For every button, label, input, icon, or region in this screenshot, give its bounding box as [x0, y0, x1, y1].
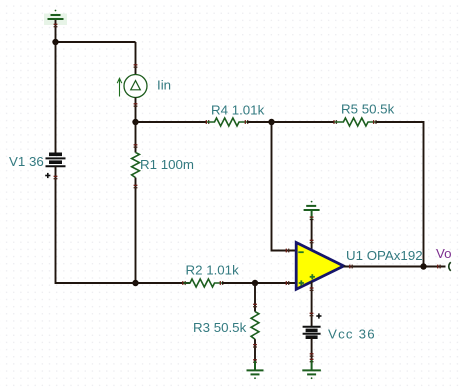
pin x GND3: [310, 217, 314, 219]
node A junction: [52, 39, 58, 45]
pin x GND4: [310, 359, 314, 361]
node F junction: [252, 280, 258, 286]
pin x R1 top: [134, 145, 138, 147]
pin x current source top: [134, 65, 138, 67]
wire node B to R4: [136, 121, 208, 123]
ground GND1 glow: [44, 14, 67, 26]
pin x GND2: [253, 360, 257, 362]
resistor R5 zigzag: [335, 118, 376, 126]
svg-text:Iin: Iin: [157, 78, 171, 93]
ground GND1: [48, 10, 64, 19]
wire op-amp bottom pin to Vcc: [311, 282, 313, 327]
resistor R3 zigzag: [251, 312, 259, 340]
pin x GND1: [54, 24, 58, 26]
pin x R4 right: [245, 120, 247, 124]
svg-text:R1 100m: R1 100m: [140, 157, 194, 172]
wire feedback node D down and right to op-amp minus input: [272, 122, 297, 251]
pin x R5 left: [334, 120, 336, 124]
ground GND2: [247, 361, 264, 379]
svg-text:U1 OPAx192: U1 OPAx192: [346, 248, 423, 263]
pin x Vo terminal: [438, 265, 440, 269]
wire V1 bottom down and right to R2: [56, 166, 191, 283]
svg-text:Vo: Vo: [436, 246, 452, 261]
wire ground GND1 stem to node A: [55, 20, 57, 42]
battery V1: [46, 154, 66, 166]
node E junction: [420, 263, 426, 269]
wire current source bottom pin to node B: [135, 98, 137, 123]
node D junction: [268, 119, 274, 125]
svg-text:Vcc 36: Vcc 36: [328, 327, 376, 342]
pin x op-amp minus input: [286, 249, 288, 253]
op-amp plus input marker: [299, 280, 304, 285]
op-amp minus marker: [298, 251, 303, 253]
current source I1 inner triangle: [131, 81, 141, 90]
pin x R2 left: [183, 281, 185, 285]
wire V1 branch top: [55, 42, 57, 154]
node C junction: [132, 280, 138, 286]
pin x R5 right: [374, 120, 376, 124]
pin x Vcc bottom: [310, 354, 314, 356]
resistor R1 zigzag: [132, 152, 140, 177]
ground GND4: [302, 360, 321, 379]
battery Vcc plus sign: [316, 313, 321, 318]
wire down to current source top pin: [135, 42, 137, 75]
svg-text:R4 1.01k: R4 1.01k: [211, 103, 265, 118]
current source direction arrow: [117, 78, 122, 96]
svg-text:R3 50.5k: R3 50.5k: [193, 320, 247, 335]
pin x V1 bottom: [54, 176, 58, 178]
pin x R2 right: [220, 281, 222, 285]
pin x R4 left: [206, 120, 208, 124]
pin x op-amp bottom pin: [310, 288, 314, 290]
pin x R3 top: [253, 304, 257, 306]
pin x Vcc top: [310, 313, 314, 315]
wire R1 bottom to node C: [135, 178, 137, 283]
wire node F down to R3: [254, 283, 256, 312]
wire R4 right to node D: [247, 121, 272, 123]
pin x op-amp plus input: [286, 281, 288, 285]
ground GND3 above op-amp: [304, 201, 320, 219]
op-amp U1 triangle: [296, 243, 344, 290]
resistor R2 zigzag: [184, 279, 223, 287]
pin x R1 bottom: [134, 185, 138, 187]
svg-text:R5 50.5k: R5 50.5k: [341, 102, 395, 117]
svg-text:R2 1.01k: R2 1.01k: [186, 263, 240, 278]
wire node D to R5: [272, 121, 335, 123]
wire GND3 to op-amp top pin: [311, 219, 313, 250]
svg-text:V1 36: V1 36: [9, 154, 44, 169]
pin x current source bottom: [134, 104, 138, 106]
battery Vcc: [303, 327, 321, 337]
wire op-amp output to Vo terminal: [344, 266, 446, 268]
wire R5 right to corner and down to node E: [376, 122, 424, 267]
battery V1 plus sign: [45, 173, 50, 178]
wire R2 right to node F and op-amp plus input: [222, 282, 296, 284]
resistor R4 zigzag: [207, 118, 247, 126]
wire Vcc bottom to ground GND4: [311, 337, 313, 362]
pin x R3 bottom: [253, 345, 257, 347]
pin x op-amp output: [350, 265, 352, 269]
wire R3 bottom to ground GND2: [254, 339, 256, 362]
op-amp power plus marker: [310, 274, 315, 279]
terminal Vo arc: [449, 262, 451, 270]
wire node B down to R1: [135, 122, 137, 153]
node B junction: [132, 119, 138, 125]
current source I1 circle: [124, 75, 147, 98]
wire node A to current source branch (top horizontal): [55, 41, 136, 43]
pin x op-amp top pin: [310, 240, 314, 242]
